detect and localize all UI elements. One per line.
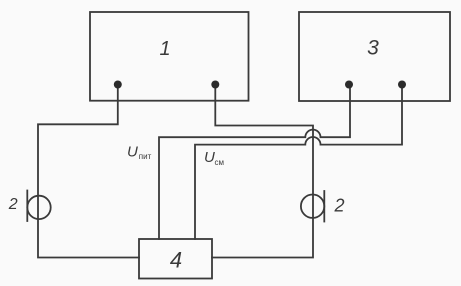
svg-text:см: см: [215, 158, 225, 167]
svg-text:U: U: [204, 149, 215, 166]
svg-text:1: 1: [159, 38, 170, 60]
svg-text:U: U: [127, 143, 138, 160]
svg-text:2: 2: [8, 196, 18, 213]
svg-text:3: 3: [367, 37, 379, 60]
svg-text:4: 4: [170, 248, 182, 273]
svg-text:пит: пит: [139, 152, 152, 161]
svg-text:2: 2: [333, 196, 344, 216]
